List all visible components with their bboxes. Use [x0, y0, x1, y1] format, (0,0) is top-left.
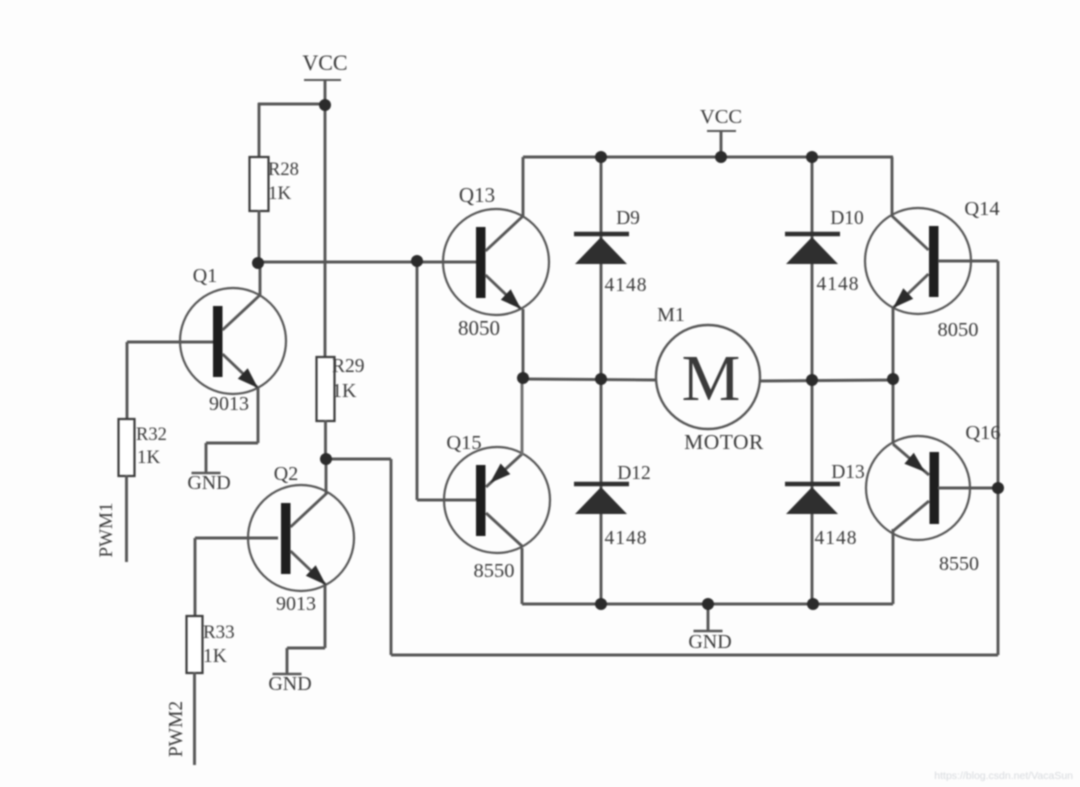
svg-text:1K: 1K	[332, 380, 357, 402]
svg-text:M1: M1	[657, 304, 685, 326]
svg-text:D10: D10	[830, 208, 864, 229]
svg-text:8550: 8550	[474, 560, 515, 582]
svg-text:Q16: Q16	[965, 422, 1000, 444]
svg-text:R32: R32	[136, 425, 167, 445]
svg-text:D12: D12	[617, 463, 651, 484]
svg-text:Q1: Q1	[193, 265, 217, 287]
svg-text:Q15: Q15	[446, 432, 481, 454]
svg-text:VCC: VCC	[700, 106, 742, 128]
svg-text:Q13: Q13	[459, 183, 495, 207]
svg-text:R33: R33	[203, 622, 235, 643]
svg-text:4148: 4148	[605, 528, 648, 549]
svg-text:8550: 8550	[939, 553, 979, 575]
svg-text:9013: 9013	[276, 593, 316, 615]
svg-text:D9: D9	[616, 208, 640, 229]
svg-text:1K: 1K	[268, 183, 292, 204]
svg-text:1K: 1K	[203, 646, 227, 667]
svg-text:PWM1: PWM1	[96, 503, 117, 558]
svg-text:Q14: Q14	[964, 198, 999, 220]
svg-text:https://blog.csdn.net/VacaSun: https://blog.csdn.net/VacaSun	[934, 770, 1073, 782]
svg-text:D13: D13	[831, 462, 865, 483]
svg-text:M: M	[682, 342, 741, 415]
svg-text:PWM2: PWM2	[166, 701, 187, 757]
svg-text:8050: 8050	[938, 319, 979, 341]
svg-text:R28: R28	[268, 160, 299, 180]
svg-text:VCC: VCC	[302, 50, 347, 75]
svg-text:8050: 8050	[458, 316, 500, 340]
svg-text:GND: GND	[187, 472, 230, 494]
svg-text:Q2: Q2	[274, 463, 298, 485]
svg-text:R29: R29	[332, 356, 365, 377]
svg-text:GND: GND	[688, 631, 731, 653]
svg-text:4148: 4148	[605, 275, 648, 296]
svg-text:4148: 4148	[815, 528, 858, 549]
svg-text:1K: 1K	[137, 447, 161, 468]
svg-text:GND: GND	[268, 673, 311, 695]
svg-text:9013: 9013	[209, 393, 249, 415]
svg-text:MOTOR: MOTOR	[684, 430, 764, 454]
svg-text:4148: 4148	[817, 274, 860, 295]
